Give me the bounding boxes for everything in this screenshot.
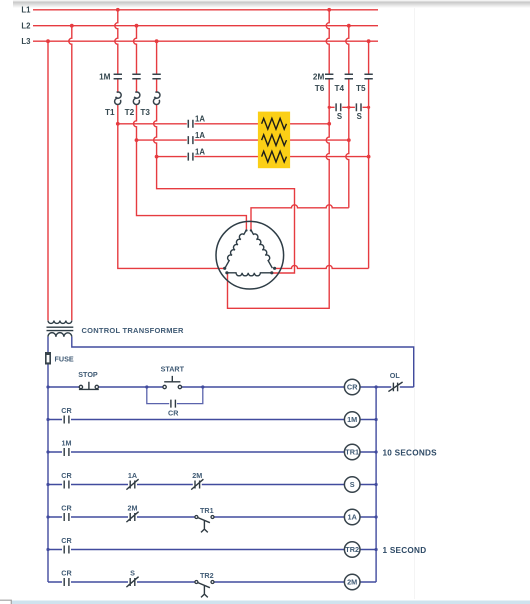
svg-text:T5: T5 (356, 84, 366, 93)
wire L3 rail (33, 40, 378, 42)
wire secondary left to fuse (47, 337, 49, 352)
contact OL bars and slash (388, 382, 402, 392)
contact CR branch bars (171, 400, 176, 408)
svg-text:S: S (357, 112, 362, 121)
junction dot Srow-colH (367, 106, 370, 109)
coil CR (344, 379, 360, 395)
contact 2M rung4 bars with NC slash (191, 479, 203, 489)
coil TR2 (344, 542, 360, 558)
junction dot left rail rung2 (46, 418, 49, 421)
svg-text:T4: T4 (335, 84, 345, 93)
svg-text:TR2: TR2 (200, 571, 214, 580)
svg-text:CR: CR (61, 471, 72, 480)
contact CR rung6 bars (64, 546, 69, 554)
overload heater OL-1 (115, 92, 122, 104)
junction dot L3-colA (46, 39, 50, 43)
resistor R3 (262, 151, 287, 162)
contact CR rung2 bars (64, 416, 69, 424)
wire from column G along y=207.8 with hops, down to delta top-right vertex (251, 205, 349, 230)
wire fuse to left rail bottom (47, 365, 49, 583)
wire from column H along y=268.4 with hops to motor right vertex (276, 265, 369, 268)
motor terminal dot left vertex (223, 267, 226, 270)
svg-text:CR: CR (61, 569, 72, 578)
motor terminal dot bottom-right (270, 271, 273, 274)
junction dot line1-colF (327, 122, 331, 126)
pushbutton STOP symbol (79, 382, 99, 390)
junction dot left rail rung6 (46, 548, 49, 551)
motor circle M (216, 221, 284, 289)
junction dot line1-colC (116, 122, 120, 126)
svg-text:CR: CR (168, 409, 179, 418)
contact 1A rung4 bars with NC slash (126, 479, 138, 489)
contactor contact 1M-2 (132, 74, 140, 79)
svg-text:L3: L3 (21, 37, 31, 46)
junction dot coil rail rung2 (375, 418, 378, 421)
svg-text:1M: 1M (347, 415, 357, 424)
contact CR rung5 bars (64, 513, 69, 521)
svg-text:STOP: STOP (78, 370, 98, 379)
wire rung 7 segments (48, 581, 376, 583)
wire column G from L2 with hop over L3 through 2M contact gap (346, 26, 349, 208)
contact TR1 circles (195, 516, 198, 519)
resistor R2 (262, 135, 287, 146)
svg-text:T1: T1 (105, 108, 115, 117)
motor terminal dot bottom-left (225, 271, 228, 274)
transformer secondary winding (48, 333, 72, 337)
resistor bank enclosure (258, 112, 290, 169)
contact CR rung4 bars (64, 481, 69, 489)
wire resistor line 1 with 1A contact gap (118, 123, 329, 125)
motor terminal dot top-left (245, 229, 247, 231)
svg-text:TR1: TR1 (345, 447, 359, 456)
contact TR2 circles (195, 581, 198, 584)
wire column C below OL to line1 junction and motor left vertex (118, 105, 224, 269)
junction dot L3-colH (367, 39, 371, 43)
motor terminal dot right vertex (273, 267, 276, 270)
svg-text:T3: T3 (140, 108, 150, 117)
contact 1A-3 bars (188, 153, 193, 161)
junction dot coil rail rung4 (375, 483, 378, 486)
wire resistor line 2 with 1A contact gap (137, 139, 349, 141)
junction dot line3-colE (155, 155, 159, 159)
coil 1M (344, 412, 360, 428)
wire column F from L1 with hops over L2,L3 through 2M contact gap (228, 10, 330, 309)
junction dot L1-colC (116, 8, 120, 12)
junction dot left rail rung3 (46, 450, 49, 453)
wire L2 rail (33, 25, 378, 27)
svg-text:2M: 2M (192, 471, 202, 480)
wire S-row connecting F,G,H with contact gaps (329, 106, 368, 108)
junction dot Srow-colF (328, 106, 331, 109)
svg-text:S: S (337, 112, 342, 121)
svg-text:S: S (130, 569, 135, 578)
junction dot branch left (145, 385, 148, 388)
svg-text:T6: T6 (315, 84, 325, 93)
contact S-2 bars (356, 103, 361, 111)
svg-text:1A: 1A (128, 471, 137, 480)
bottom-left corner box (0, 600, 11, 604)
contactor contact 1M-1 (114, 74, 122, 79)
junction dot line3-colH (367, 155, 371, 159)
svg-text:CONTROL TRANSFORMER: CONTROL TRANSFORMER (82, 326, 184, 335)
junction dot L1-colF (327, 8, 331, 12)
contactor contact 2M-3 (364, 74, 372, 79)
wire column C from L1 through 1M contact gap (115, 10, 118, 92)
pushbutton START circles (163, 385, 166, 388)
overload heater OL-3 (153, 92, 160, 104)
wire column D from L2 through 1M contact gap (134, 26, 137, 93)
junction dot L2-colB (70, 24, 74, 28)
svg-text:10 SECONDS: 10 SECONDS (383, 449, 438, 458)
motor delta winding bottom side (227, 273, 272, 276)
motor terminal dot top-right (250, 229, 252, 231)
fuse F1 (45, 352, 51, 365)
junction dot left rail rung4 (46, 483, 49, 486)
junction dot Srow-colG (347, 106, 350, 109)
wire column E below OL with hops over line1,line2 then to delta bottom-right terminal (154, 105, 295, 273)
junction dot left rail rung1 (46, 385, 49, 388)
overload heater OL-2 (133, 92, 140, 104)
contactor contact 2M-2 (345, 74, 353, 79)
svg-text:START: START (161, 364, 185, 373)
wire column D below OL with hop over line1, to delta top-left vertex (134, 105, 247, 229)
svg-text:TR1: TR1 (200, 506, 214, 515)
wire rung 2 segments (48, 419, 376, 421)
svg-text:CR: CR (347, 382, 358, 391)
wire rung 5 segments (48, 516, 376, 518)
junction dot L2-colD (135, 24, 139, 28)
junction dot left rail rung5 (46, 515, 49, 518)
wire right coil rail (375, 387, 377, 582)
junction dot L2-colG (347, 24, 351, 28)
wire L1 rail (33, 9, 378, 11)
wire secondary right to ladder top rail and right rail (72, 337, 414, 387)
transformer core lines (47, 327, 74, 330)
contactor contact 2M-1 (325, 74, 333, 79)
wire column E from L3 through 1M contact gap (156, 41, 158, 92)
wire rung 4 segments (48, 484, 376, 486)
svg-text:CR: CR (61, 536, 72, 545)
pushbutton STOP circles (79, 385, 82, 388)
svg-text:1 SECOND: 1 SECOND (383, 546, 427, 555)
svg-text:1A: 1A (195, 147, 205, 156)
contact 1A-1 bars (188, 120, 193, 128)
svg-text:2M: 2M (347, 577, 357, 586)
svg-text:2M: 2M (313, 72, 325, 81)
contact S-1 bars (336, 103, 341, 111)
bottom blue band (12, 601, 530, 604)
wire rung 6 segments (48, 549, 376, 551)
junction dot L3-colE (155, 39, 159, 43)
contact S rung7 bars with NC slash (126, 577, 138, 587)
svg-text:1M: 1M (62, 439, 72, 448)
coil S (344, 477, 360, 493)
contact TR2 timed contact blade and arrow (196, 582, 210, 597)
junction dot coil rail rung3 (375, 450, 378, 453)
motor delta winding right side (251, 230, 273, 268)
contact 1A-2 bars (188, 136, 193, 144)
svg-text:TR2: TR2 (345, 545, 359, 554)
svg-text:1A: 1A (195, 131, 205, 140)
wire rung 3 segments (48, 451, 376, 453)
pushbutton START symbol (164, 376, 180, 382)
junction dot coil rail rung6 (375, 548, 378, 551)
faint page divider line (414, 8, 416, 599)
transformer primary winding (48, 321, 72, 324)
contact 1M rung3 bars (64, 448, 69, 456)
svg-text:FUSE: FUSE (55, 354, 74, 363)
junction dot line2-colG (347, 138, 351, 142)
wire column B from L2 to transformer primary right with hop over L3 (69, 26, 72, 321)
svg-text:L2: L2 (21, 22, 31, 31)
svg-text:CR: CR (61, 406, 72, 415)
coil 2M (344, 574, 360, 590)
svg-text:1A: 1A (348, 512, 358, 521)
junction dot branch right (201, 385, 204, 388)
contact TR1 timed contact blade and arrow (196, 517, 210, 532)
wire resistor line 3 with 1A contact gap (157, 156, 369, 158)
resistor R1 (262, 118, 287, 129)
contact CR rung7 bars (64, 578, 69, 586)
wire start/CR parallel branch (147, 387, 203, 404)
coil TR1 (344, 444, 360, 460)
svg-text:T2: T2 (125, 108, 135, 117)
coil 1A (344, 509, 360, 525)
wire column A from L3 to transformer primary left (47, 41, 49, 320)
junction dot line2-colD (135, 138, 139, 142)
junction dot coil rail rung5 (375, 515, 378, 518)
contactor contact 1M-3 (152, 74, 160, 79)
svg-text:1M: 1M (99, 72, 111, 81)
motor delta winding left side (225, 230, 246, 268)
contact 2M rung5 bars with NC slash (126, 512, 138, 522)
svg-text:CR: CR (61, 504, 72, 513)
svg-text:2M: 2M (128, 504, 138, 513)
wire rung 1 segments (48, 386, 414, 388)
junction dot coil rail rung1 (375, 385, 378, 388)
svg-text:1A: 1A (195, 115, 205, 124)
svg-text:OL: OL (390, 371, 401, 380)
svg-text:S: S (350, 480, 355, 489)
svg-text:L1: L1 (21, 6, 31, 15)
wire column H from L3 through 2M contact gap (368, 41, 370, 268)
